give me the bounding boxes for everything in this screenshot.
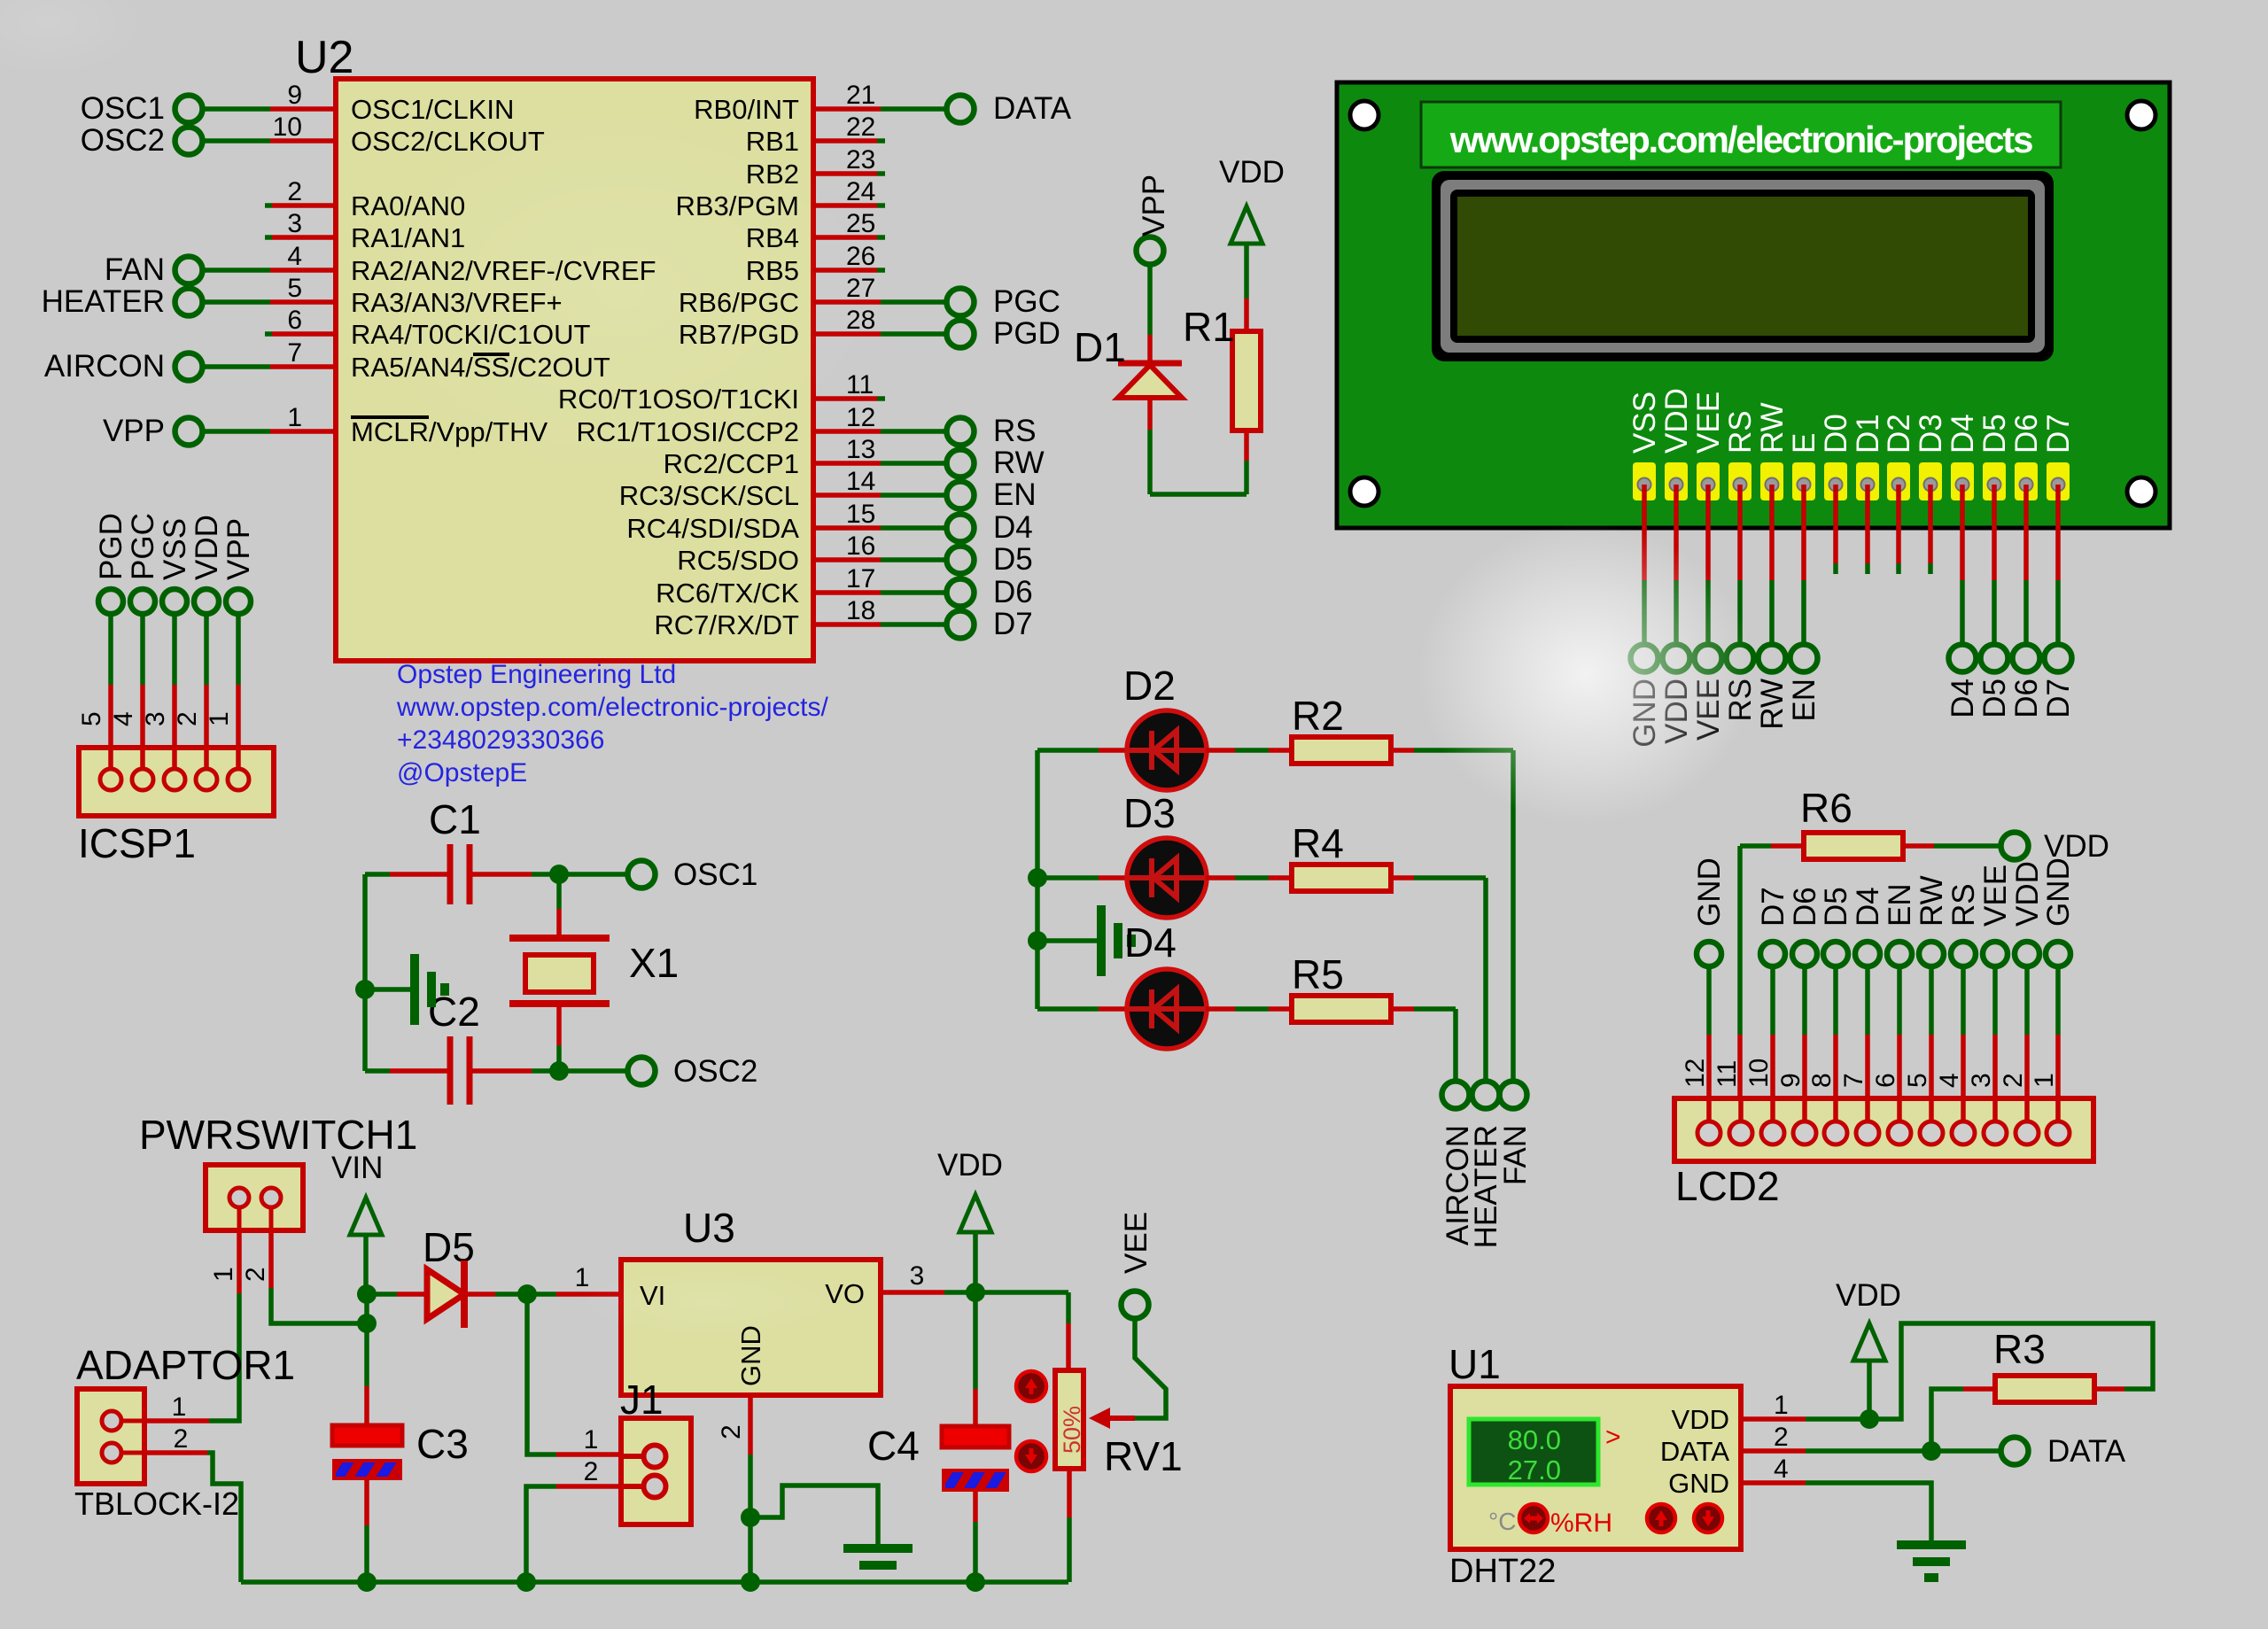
svg-text:3: 3: [141, 711, 170, 726]
svg-text:D5: D5: [1977, 679, 2012, 718]
svg-text:RB7/PGD: RB7/PGD: [679, 319, 799, 350]
svg-text:2: 2: [584, 1457, 599, 1486]
svg-text:7: 7: [287, 338, 302, 368]
svg-text:7: 7: [1839, 1073, 1868, 1088]
svg-text:12: 12: [846, 403, 875, 432]
svg-text:DATA: DATA: [993, 91, 1072, 126]
svg-text:R6: R6: [1800, 785, 1852, 831]
svg-text:25: 25: [846, 209, 875, 238]
svg-text:5: 5: [77, 711, 106, 726]
svg-text:RC3/SCK/SCL: RC3/SCK/SCL: [619, 480, 799, 511]
svg-text:RC6/TX/CK: RC6/TX/CK: [656, 578, 799, 609]
svg-text:5: 5: [1903, 1073, 1932, 1088]
svg-text:24: 24: [846, 177, 875, 206]
svg-text:OSC2: OSC2: [673, 1054, 757, 1089]
svg-text:%RH: %RH: [1550, 1509, 1612, 1538]
svg-text:VI: VI: [640, 1280, 665, 1311]
svg-text:D6: D6: [1788, 887, 1822, 927]
svg-text:RA0/AN0: RA0/AN0: [351, 190, 465, 221]
svg-text:2: 2: [174, 1424, 189, 1454]
svg-text:RC0/T1OSO/T1CKI: RC0/T1OSO/T1CKI: [558, 384, 799, 415]
svg-text:OSC1/CLKIN: OSC1/CLKIN: [351, 94, 514, 125]
svg-text:U3: U3: [683, 1205, 735, 1251]
svg-text:DHT22: DHT22: [1449, 1553, 1556, 1590]
svg-text:2: 2: [287, 177, 302, 206]
svg-text:10: 10: [1744, 1059, 1774, 1088]
svg-text:D7: D7: [2041, 679, 2076, 718]
svg-text:4: 4: [1935, 1073, 1964, 1088]
svg-text:R2: R2: [1292, 693, 1344, 739]
svg-text:www.opstep.com/electronic-proj: www.opstep.com/electronic-projects: [1449, 119, 2032, 160]
svg-text:MCLR/Vpp/THV: MCLR/Vpp/THV: [351, 416, 548, 447]
svg-text:RC7/RX/DT: RC7/RX/DT: [654, 609, 799, 640]
svg-text:18: 18: [846, 596, 875, 625]
svg-text:FAN: FAN: [1498, 1125, 1533, 1185]
svg-text:R1: R1: [1183, 304, 1235, 350]
svg-text:80.0: 80.0: [1508, 1424, 1561, 1455]
svg-text:VEE: VEE: [1691, 392, 1726, 454]
svg-text:VO: VO: [825, 1278, 865, 1309]
svg-text:2: 2: [717, 1424, 746, 1439]
svg-text:17: 17: [846, 564, 875, 593]
svg-text:15: 15: [846, 500, 875, 529]
svg-text:D6: D6: [993, 575, 1033, 609]
svg-text:VIN: VIN: [331, 1151, 383, 1185]
svg-text:VDD: VDD: [1672, 1404, 1729, 1435]
svg-text:@OpstepE: @OpstepE: [397, 758, 527, 787]
svg-text:RC5/SDO: RC5/SDO: [677, 545, 799, 576]
svg-text:8: 8: [1807, 1073, 1837, 1088]
svg-text:VEE: VEE: [1978, 865, 2013, 927]
svg-text:PGD: PGD: [993, 316, 1060, 351]
svg-text:VDD: VDD: [937, 1148, 1003, 1183]
svg-text:D5: D5: [993, 542, 1033, 577]
svg-text:U1: U1: [1449, 1341, 1501, 1387]
svg-text:RS: RS: [993, 414, 1037, 448]
svg-text:GND: GND: [1692, 857, 1727, 927]
svg-text:RS: RS: [1723, 410, 1758, 454]
svg-text:D1: D1: [1074, 324, 1126, 370]
svg-text:14: 14: [846, 467, 875, 496]
svg-text:RB3/PGM: RB3/PGM: [675, 190, 799, 221]
svg-text:13: 13: [846, 435, 875, 464]
svg-text:D3: D3: [1914, 414, 1948, 454]
svg-text:6: 6: [287, 306, 302, 335]
svg-text:5: 5: [287, 274, 302, 303]
svg-text:GND: GND: [1668, 1468, 1729, 1499]
svg-text:RW: RW: [1755, 402, 1790, 454]
svg-text:23: 23: [846, 145, 875, 175]
svg-text:1: 1: [584, 1425, 599, 1454]
svg-text:C3: C3: [416, 1421, 469, 1467]
svg-text:RS: RS: [1946, 883, 1981, 927]
svg-text:VDD: VDD: [190, 515, 224, 580]
svg-text:RA1/AN1: RA1/AN1: [351, 222, 465, 253]
svg-text:VDD: VDD: [1219, 155, 1285, 190]
svg-text:RA5/AN4/SS/C2OUT: RA5/AN4/SS/C2OUT: [351, 352, 610, 383]
svg-text:D6: D6: [2009, 679, 2044, 718]
svg-text:VPP: VPP: [103, 414, 165, 448]
svg-text:D0: D0: [1819, 414, 1853, 454]
svg-text:Opstep Engineering Ltd: Opstep Engineering Ltd: [397, 660, 676, 689]
svg-text:OSC1: OSC1: [81, 91, 165, 126]
svg-text:1: 1: [205, 711, 234, 726]
svg-text:PGD: PGD: [94, 513, 128, 580]
svg-text:D3: D3: [1123, 790, 1176, 836]
svg-text:HEATER: HEATER: [42, 284, 165, 319]
svg-text:EN: EN: [1883, 883, 1917, 927]
svg-text:26: 26: [846, 242, 875, 271]
svg-text:RC1/T1OSI/CCP2: RC1/T1OSI/CCP2: [576, 416, 799, 447]
svg-text:D5: D5: [1977, 414, 2012, 454]
svg-text:www.opstep.com/electronic-proj: www.opstep.com/electronic-projects/: [396, 693, 829, 722]
svg-text:RB0/INT: RB0/INT: [694, 94, 799, 125]
svg-text:OSC2: OSC2: [81, 123, 165, 158]
svg-text:D5: D5: [1819, 887, 1853, 927]
svg-text:D4: D4: [1946, 679, 1980, 718]
svg-text:DATA: DATA: [2047, 1434, 2126, 1469]
svg-text:LCD2: LCD2: [1675, 1163, 1780, 1209]
svg-text:VPP: VPP: [221, 518, 256, 580]
svg-text:9: 9: [1776, 1073, 1806, 1088]
svg-text:2: 2: [241, 1267, 270, 1282]
svg-text:D1: D1: [1851, 414, 1885, 454]
svg-text:EN: EN: [993, 477, 1037, 512]
svg-text:AIRCON: AIRCON: [44, 349, 165, 384]
svg-text:EN: EN: [1787, 679, 1821, 722]
svg-text:X1: X1: [629, 940, 679, 986]
svg-text:DATA: DATA: [1660, 1436, 1729, 1467]
svg-text:3: 3: [287, 209, 302, 238]
svg-text:4: 4: [1774, 1454, 1789, 1484]
svg-text:50%: 50%: [1059, 1406, 1085, 1454]
svg-text:RV1: RV1: [1104, 1433, 1183, 1479]
svg-text:PGC: PGC: [993, 284, 1060, 319]
svg-text:3: 3: [1967, 1073, 1996, 1088]
svg-text:D4: D4: [1851, 887, 1885, 927]
svg-text:D7: D7: [993, 607, 1033, 641]
svg-text:VDD: VDD: [1659, 388, 1694, 454]
svg-text:RA4/T0CKI/C1OUT: RA4/T0CKI/C1OUT: [351, 319, 591, 350]
svg-text:10: 10: [273, 112, 302, 142]
svg-text:RB2: RB2: [746, 159, 799, 190]
svg-text:R3: R3: [1993, 1326, 2046, 1372]
svg-text:VEE: VEE: [1119, 1212, 1153, 1274]
svg-text:RC4/SDI/SDA: RC4/SDI/SDA: [626, 513, 799, 544]
svg-text:OSC1: OSC1: [673, 857, 757, 892]
svg-text:VDD: VDD: [1836, 1278, 1901, 1313]
svg-text:RW: RW: [1755, 679, 1790, 730]
svg-text:4: 4: [287, 242, 302, 271]
svg-text:11: 11: [846, 370, 874, 399]
svg-text:1: 1: [287, 403, 302, 432]
svg-text:D4: D4: [1124, 919, 1177, 966]
svg-text:21: 21: [846, 81, 875, 110]
svg-text:R5: R5: [1292, 951, 1344, 997]
svg-text:2: 2: [173, 711, 202, 726]
svg-text:RA2/AN2/VREF-/CVREF: RA2/AN2/VREF-/CVREF: [351, 255, 656, 286]
svg-text:VDD: VDD: [2010, 861, 2045, 927]
svg-text:+2348029330366: +2348029330366: [397, 725, 604, 755]
svg-text:RB5: RB5: [746, 255, 799, 286]
svg-text:VSS: VSS: [1627, 392, 1662, 454]
svg-text:GND: GND: [735, 1325, 766, 1386]
svg-text:RB1: RB1: [746, 126, 799, 157]
svg-text:6: 6: [1871, 1073, 1900, 1088]
svg-text:VPP: VPP: [1137, 175, 1171, 237]
svg-text:C4: C4: [867, 1423, 920, 1469]
svg-text:°C: °C: [1488, 1508, 1516, 1535]
svg-text:RA3/AN3/VREF+: RA3/AN3/VREF+: [351, 287, 563, 318]
svg-text:1: 1: [209, 1267, 238, 1282]
svg-text:11: 11: [1713, 1060, 1742, 1088]
svg-text:RC2/CCP1: RC2/CCP1: [664, 448, 799, 479]
svg-text:27.0: 27.0: [1508, 1454, 1561, 1485]
svg-text:D6: D6: [2009, 414, 2044, 454]
svg-text:D4: D4: [1946, 414, 1980, 454]
svg-text:D7: D7: [1756, 887, 1790, 927]
svg-text:RW: RW: [993, 446, 1045, 480]
svg-text:C1: C1: [429, 796, 481, 842]
svg-text:D2: D2: [1882, 414, 1916, 454]
svg-text:RB6/PGC: RB6/PGC: [679, 287, 799, 318]
svg-text:28: 28: [846, 306, 875, 335]
svg-text:>: >: [1605, 1423, 1621, 1452]
svg-text:3: 3: [910, 1261, 925, 1291]
svg-text:E: E: [1787, 433, 1821, 454]
svg-text:9: 9: [287, 81, 302, 110]
svg-text:TBLOCK-I2: TBLOCK-I2: [74, 1485, 239, 1522]
svg-text:4: 4: [109, 711, 138, 726]
svg-text:16: 16: [846, 531, 875, 561]
svg-text:ADAPTOR1: ADAPTOR1: [76, 1342, 295, 1388]
svg-text:D4: D4: [993, 510, 1033, 545]
svg-text:OSC2/CLKOUT: OSC2/CLKOUT: [351, 126, 545, 157]
svg-text:FAN: FAN: [105, 252, 165, 287]
svg-text:D7: D7: [2041, 414, 2076, 454]
svg-text:PGC: PGC: [126, 513, 160, 580]
svg-text:D2: D2: [1123, 663, 1176, 709]
svg-text:GND: GND: [2041, 857, 2076, 927]
svg-text:1: 1: [2030, 1073, 2059, 1088]
svg-text:1: 1: [1774, 1391, 1789, 1420]
svg-text:VSS: VSS: [158, 518, 192, 580]
svg-text:2: 2: [1774, 1423, 1789, 1452]
svg-text:1: 1: [172, 1392, 187, 1422]
svg-text:22: 22: [846, 112, 875, 142]
svg-text:ICSP1: ICSP1: [78, 820, 196, 866]
svg-text:2: 2: [1999, 1073, 2028, 1088]
svg-text:U2: U2: [295, 32, 353, 83]
svg-text:RW: RW: [1915, 875, 1949, 927]
svg-text:12: 12: [1681, 1059, 1710, 1088]
svg-text:27: 27: [846, 274, 875, 303]
svg-text:R4: R4: [1292, 820, 1344, 866]
svg-text:RB4: RB4: [746, 222, 799, 253]
